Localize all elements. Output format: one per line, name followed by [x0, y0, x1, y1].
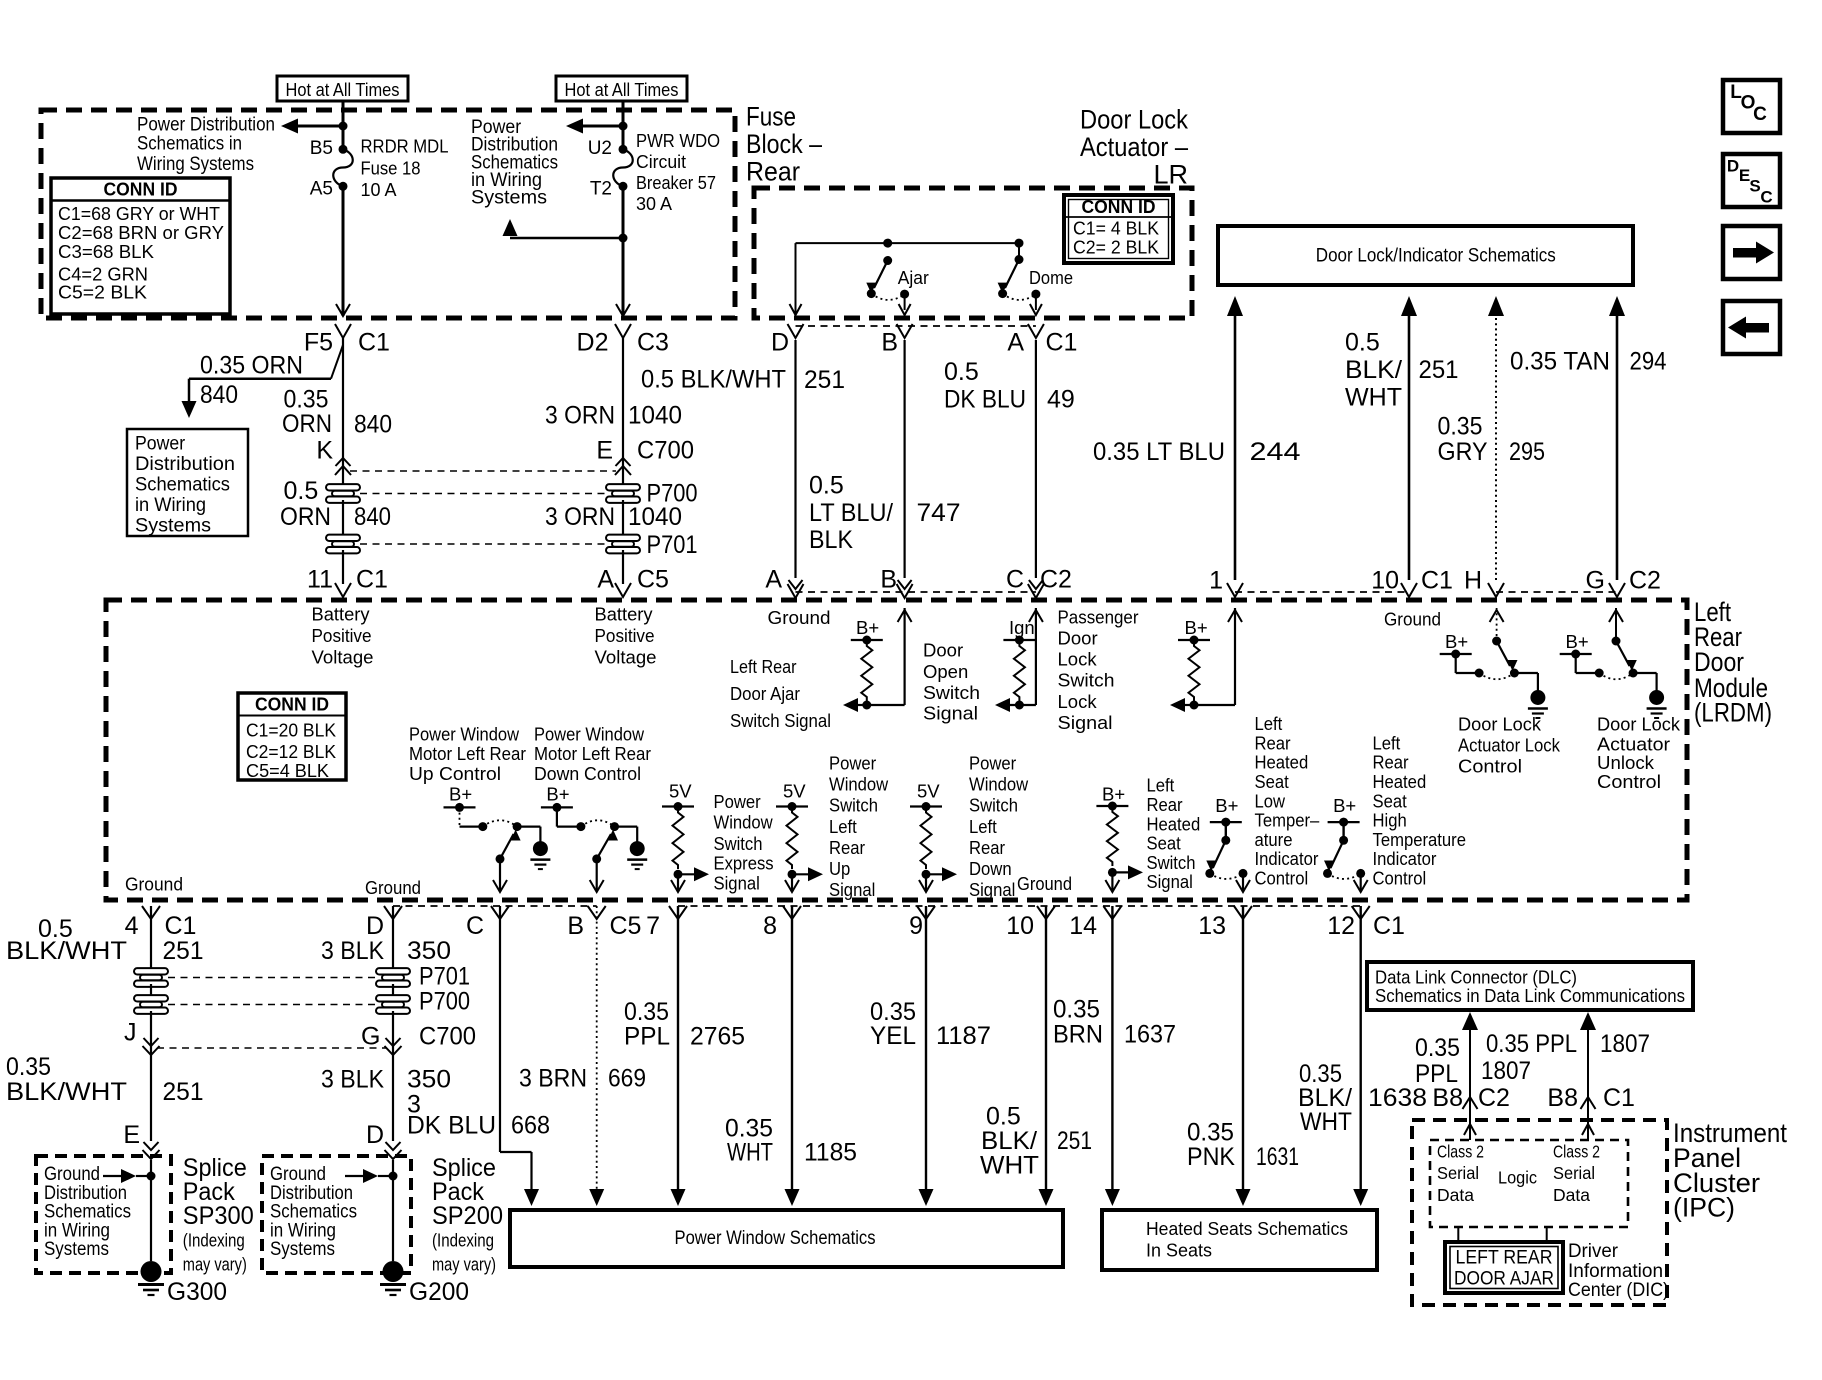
svg-text:1185: 1185 — [804, 1139, 857, 1167]
svg-text:H: H — [1464, 567, 1482, 595]
svg-text:CONN ID: CONN ID — [1082, 197, 1156, 217]
svg-text:C1: C1 — [1421, 567, 1453, 595]
svg-text:WHT: WHT — [1300, 1108, 1352, 1136]
svg-text:Door Lock/Indicator Schematics: Door Lock/Indicator Schematics — [1316, 246, 1556, 267]
svg-text:Ground: Ground — [365, 877, 421, 898]
svg-text:Door Lock: Door Lock — [1080, 105, 1188, 135]
svg-text:5V: 5V — [783, 781, 806, 802]
svg-text:0.35 LT BLU: 0.35 LT BLU — [1093, 438, 1225, 466]
svg-text:10 A: 10 A — [361, 180, 397, 200]
svg-text:(LRDM): (LRDM) — [1694, 698, 1772, 728]
svg-text:B: B — [567, 912, 584, 940]
svg-text:Rear: Rear — [1255, 732, 1291, 753]
svg-text:840: 840 — [354, 503, 391, 531]
svg-text:in Wiring: in Wiring — [135, 495, 206, 516]
svg-text:Heated: Heated — [1373, 771, 1427, 792]
svg-text:1638: 1638 — [1368, 1084, 1427, 1112]
svg-text:S: S — [1749, 177, 1760, 196]
svg-text:Signal: Signal — [829, 879, 875, 900]
svg-text:Rear: Rear — [1147, 794, 1183, 815]
svg-text:Positive: Positive — [595, 625, 655, 646]
svg-text:C: C — [1760, 188, 1772, 207]
svg-text:Up Control: Up Control — [409, 763, 501, 784]
svg-text:DK BLU: DK BLU — [407, 1112, 496, 1140]
svg-text:G200: G200 — [409, 1278, 469, 1306]
svg-text:Data: Data — [1437, 1185, 1474, 1205]
svg-text:Class 2: Class 2 — [1553, 1142, 1600, 1162]
svg-text:Ground: Ground — [125, 874, 183, 895]
svg-text:Distribution: Distribution — [135, 454, 235, 475]
svg-text:B+: B+ — [1102, 784, 1125, 805]
svg-text:Ground: Ground — [1384, 609, 1441, 630]
svg-text:3 BRN: 3 BRN — [519, 1065, 587, 1093]
svg-text:A: A — [1007, 329, 1024, 357]
svg-text:Seat: Seat — [1255, 771, 1289, 792]
svg-text:0.35: 0.35 — [1438, 413, 1483, 441]
svg-text:Lock: Lock — [1058, 649, 1098, 670]
svg-text:0.5: 0.5 — [809, 472, 844, 500]
svg-text:Rear: Rear — [829, 837, 865, 858]
svg-text:C1: C1 — [165, 912, 197, 940]
svg-text:1: 1 — [1209, 567, 1223, 595]
svg-text:Signal: Signal — [969, 879, 1015, 900]
svg-text:C: C — [1753, 104, 1767, 125]
svg-text:C: C — [466, 912, 484, 940]
svg-text:840: 840 — [200, 381, 238, 409]
svg-text:Rear: Rear — [1373, 752, 1409, 773]
svg-text:251: 251 — [804, 366, 845, 394]
svg-text:Ground: Ground — [1017, 873, 1072, 894]
svg-text:4: 4 — [125, 912, 139, 940]
svg-text:0.35: 0.35 — [1053, 996, 1100, 1024]
svg-text:B5: B5 — [310, 138, 333, 159]
svg-text:P701: P701 — [647, 531, 698, 559]
svg-text:G: G — [1586, 567, 1605, 595]
svg-text:1040: 1040 — [628, 503, 682, 531]
svg-text:Door Lock: Door Lock — [1458, 714, 1542, 735]
svg-text:Express: Express — [714, 853, 774, 874]
svg-text:Unlock: Unlock — [1597, 752, 1655, 773]
svg-text:may vary): may vary) — [432, 1254, 496, 1275]
svg-text:Temper–: Temper– — [1255, 810, 1320, 831]
svg-text:B: B — [881, 329, 898, 357]
svg-text:C3=68 BLK: C3=68 BLK — [58, 241, 155, 262]
svg-text:9: 9 — [909, 912, 923, 940]
svg-text:Ground: Ground — [768, 607, 831, 628]
svg-text:5V: 5V — [917, 781, 940, 802]
svg-text:G: G — [361, 1023, 380, 1051]
svg-text:T2: T2 — [590, 179, 612, 200]
svg-text:B+: B+ — [1566, 631, 1589, 652]
svg-text:PNK: PNK — [1187, 1143, 1235, 1171]
svg-text:Actuator Lock: Actuator Lock — [1458, 735, 1561, 756]
svg-text:In Seats: In Seats — [1146, 1240, 1212, 1261]
svg-text:(Indexing: (Indexing — [432, 1230, 494, 1251]
svg-text:Door Ajar: Door Ajar — [730, 683, 800, 704]
svg-text:C1: C1 — [1603, 1084, 1635, 1112]
svg-text:8: 8 — [763, 912, 777, 940]
svg-text:may vary): may vary) — [183, 1254, 247, 1275]
svg-text:Open: Open — [923, 661, 968, 682]
svg-text:840: 840 — [354, 411, 392, 439]
svg-text:Heated: Heated — [1147, 813, 1201, 834]
svg-text:P700: P700 — [419, 988, 470, 1016]
svg-text:Left Rear: Left Rear — [730, 656, 797, 677]
svg-text:295: 295 — [1509, 438, 1545, 466]
svg-text:PPL: PPL — [624, 1022, 670, 1050]
svg-text:Battery: Battery — [312, 604, 371, 625]
svg-text:Battery: Battery — [595, 604, 654, 625]
svg-text:Rear: Rear — [969, 837, 1005, 858]
svg-text:Motor Left Rear: Motor Left Rear — [534, 743, 651, 764]
svg-text:A: A — [597, 566, 614, 594]
svg-text:Left: Left — [1255, 713, 1283, 734]
svg-text:0.35 PPL: 0.35 PPL — [1486, 1030, 1577, 1058]
svg-text:0.35: 0.35 — [1415, 1034, 1460, 1062]
svg-text:Power: Power — [969, 752, 1016, 773]
svg-text:Switch Signal: Switch Signal — [730, 710, 831, 731]
svg-text:D: D — [366, 912, 384, 940]
svg-text:(IPC): (IPC) — [1673, 1193, 1735, 1223]
svg-text:CONN ID: CONN ID — [104, 180, 178, 200]
svg-text:Lock: Lock — [1058, 691, 1098, 712]
svg-text:Information: Information — [1568, 1261, 1663, 1282]
svg-text:C1=68 GRY or WHT: C1=68 GRY or WHT — [58, 203, 220, 224]
svg-text:Circuit: Circuit — [636, 152, 686, 172]
svg-text:Hot at All Times: Hot at All Times — [565, 79, 679, 100]
svg-text:Schematics in: Schematics in — [137, 134, 242, 155]
svg-text:350: 350 — [407, 937, 451, 965]
svg-text:Heated Seats Schematics: Heated Seats Schematics — [1146, 1218, 1348, 1239]
svg-text:WHT: WHT — [727, 1139, 773, 1167]
svg-text:SP200: SP200 — [432, 1202, 503, 1230]
svg-text:J: J — [124, 1019, 137, 1047]
svg-text:Up: Up — [829, 858, 850, 879]
svg-text:Switch: Switch — [714, 833, 763, 854]
svg-text:F5: F5 — [304, 329, 333, 357]
svg-text:13: 13 — [1198, 912, 1226, 940]
svg-text:Power Window Schematics: Power Window Schematics — [675, 1228, 876, 1249]
svg-text:G300: G300 — [167, 1278, 227, 1306]
svg-text:Systems: Systems — [135, 516, 211, 537]
svg-text:251: 251 — [1057, 1127, 1092, 1155]
svg-text:Power: Power — [135, 434, 186, 455]
svg-text:Heated: Heated — [1255, 752, 1309, 773]
svg-text:Indicator: Indicator — [1373, 848, 1437, 869]
svg-text:Passenger: Passenger — [1058, 607, 1139, 628]
svg-text:K: K — [316, 437, 333, 465]
svg-text:Schematics: Schematics — [135, 475, 230, 496]
svg-text:0.5 BLK/WHT: 0.5 BLK/WHT — [641, 366, 786, 394]
svg-text:Indicator: Indicator — [1255, 848, 1319, 869]
svg-text:1807: 1807 — [1481, 1057, 1531, 1085]
svg-text:11: 11 — [307, 566, 333, 594]
svg-text:Actuator –: Actuator – — [1080, 132, 1188, 162]
svg-text:DK BLU: DK BLU — [944, 385, 1026, 413]
svg-text:Logic: Logic — [1498, 1168, 1537, 1188]
svg-text:B: B — [880, 566, 897, 594]
svg-text:Voltage: Voltage — [595, 647, 657, 668]
svg-text:U2: U2 — [588, 138, 612, 159]
svg-text:Window: Window — [829, 774, 889, 795]
svg-text:3 ORN: 3 ORN — [545, 503, 615, 531]
svg-text:Hot at All Times: Hot at All Times — [286, 79, 400, 100]
svg-text:10: 10 — [1006, 912, 1034, 940]
svg-text:1040: 1040 — [628, 402, 682, 430]
svg-text:SP300: SP300 — [183, 1202, 254, 1230]
svg-text:High: High — [1373, 810, 1407, 831]
svg-text:Switch: Switch — [923, 682, 980, 703]
svg-text:Control: Control — [1597, 771, 1661, 792]
svg-text:294: 294 — [1630, 348, 1667, 376]
svg-text:Breaker 57: Breaker 57 — [636, 173, 716, 193]
svg-text:Switch: Switch — [829, 795, 878, 816]
svg-text:(Indexing: (Indexing — [183, 1230, 245, 1251]
svg-text:Door Lock: Door Lock — [1597, 714, 1681, 735]
svg-text:Positive: Positive — [312, 625, 372, 646]
svg-text:Signal: Signal — [1058, 712, 1113, 733]
svg-text:251: 251 — [163, 937, 204, 965]
svg-text:C5: C5 — [637, 566, 669, 594]
svg-text:Data: Data — [1553, 1185, 1590, 1205]
svg-text:3 BLK: 3 BLK — [321, 937, 384, 965]
svg-text:D: D — [1727, 157, 1739, 176]
svg-text:Systems: Systems — [44, 1239, 109, 1260]
svg-text:Control: Control — [1373, 868, 1427, 889]
svg-text:Down Control: Down Control — [534, 763, 641, 784]
svg-text:1631: 1631 — [1256, 1143, 1299, 1171]
svg-text:3 BLK: 3 BLK — [321, 1066, 384, 1094]
svg-text:CONN ID: CONN ID — [255, 695, 329, 715]
svg-text:251: 251 — [1419, 356, 1459, 384]
svg-text:Signal: Signal — [714, 872, 760, 893]
svg-text:A5: A5 — [310, 179, 333, 200]
svg-text:Fuse 18: Fuse 18 — [361, 159, 421, 179]
svg-text:B+: B+ — [1215, 795, 1238, 816]
svg-text:Schematics in Data Link Commun: Schematics in Data Link Communications — [1375, 985, 1685, 1006]
svg-text:C: C — [1006, 566, 1024, 594]
svg-text:BRN: BRN — [1053, 1021, 1103, 1049]
svg-text:B+: B+ — [856, 617, 879, 638]
svg-text:C1=20 BLK: C1=20 BLK — [246, 720, 337, 741]
svg-text:Seat: Seat — [1147, 833, 1181, 854]
svg-text:B+: B+ — [1333, 795, 1356, 816]
svg-text:Power: Power — [714, 791, 761, 812]
svg-text:Left: Left — [969, 816, 997, 837]
svg-text:Center (DIC): Center (DIC) — [1568, 1280, 1669, 1301]
svg-text:P701: P701 — [419, 963, 470, 991]
svg-text:B+: B+ — [546, 784, 569, 805]
svg-text:668: 668 — [511, 1112, 550, 1140]
svg-text:Systems: Systems — [270, 1239, 335, 1260]
svg-text:C2=12 BLK: C2=12 BLK — [246, 741, 337, 762]
svg-text:ature: ature — [1255, 829, 1293, 850]
svg-text:BLK/WHT: BLK/WHT — [6, 1078, 127, 1106]
svg-text:E: E — [123, 1121, 140, 1149]
svg-text:Low: Low — [1255, 790, 1286, 811]
svg-text:YEL: YEL — [870, 1022, 916, 1050]
svg-text:Voltage: Voltage — [312, 647, 374, 668]
svg-text:Door: Door — [1058, 628, 1098, 649]
svg-text:0.35 ORN: 0.35 ORN — [200, 352, 303, 380]
svg-text:251: 251 — [163, 1078, 204, 1106]
svg-text:D: D — [366, 1121, 384, 1149]
svg-text:Signal: Signal — [923, 703, 978, 724]
svg-text:Systems: Systems — [471, 188, 547, 209]
svg-text:C700: C700 — [637, 437, 694, 465]
svg-text:Power Distribution: Power Distribution — [137, 115, 275, 136]
svg-text:C2= 2 BLK: C2= 2 BLK — [1073, 237, 1160, 258]
svg-text:LT BLU/: LT BLU/ — [809, 499, 893, 527]
svg-text:Left: Left — [1373, 732, 1401, 753]
svg-text:Door: Door — [923, 640, 963, 661]
svg-text:C1= 4 BLK: C1= 4 BLK — [1073, 218, 1160, 239]
svg-text:Dome: Dome — [1029, 267, 1073, 288]
svg-text:Class 2: Class 2 — [1437, 1142, 1484, 1162]
svg-text:BLK/: BLK/ — [1345, 356, 1402, 384]
svg-text:B8: B8 — [1432, 1084, 1463, 1112]
svg-text:C700: C700 — [419, 1023, 476, 1051]
svg-text:C1: C1 — [1046, 329, 1078, 357]
svg-text:244: 244 — [1250, 438, 1301, 466]
svg-text:49: 49 — [1047, 385, 1075, 413]
svg-text:Driver: Driver — [1568, 1241, 1619, 1262]
svg-text:Left: Left — [1147, 775, 1175, 796]
svg-text:0.35: 0.35 — [6, 1053, 51, 1081]
svg-text:5V: 5V — [669, 781, 692, 802]
svg-text:C5: C5 — [610, 912, 642, 940]
svg-text:Switch: Switch — [1058, 670, 1115, 691]
svg-text:C1: C1 — [1373, 912, 1405, 940]
svg-text:10: 10 — [1371, 567, 1399, 595]
svg-text:Control: Control — [1255, 868, 1309, 889]
svg-text:30 A: 30 A — [636, 194, 672, 214]
svg-text:0.35 TAN: 0.35 TAN — [1510, 348, 1610, 376]
svg-text:B+: B+ — [1185, 617, 1208, 638]
svg-text:Serial: Serial — [1553, 1163, 1595, 1183]
svg-text:Ajar: Ajar — [898, 267, 929, 288]
svg-text:1807: 1807 — [1600, 1030, 1650, 1058]
svg-text:C3: C3 — [637, 329, 669, 357]
svg-text:2765: 2765 — [690, 1022, 745, 1050]
svg-text:Switch: Switch — [1147, 852, 1196, 873]
svg-text:Switch: Switch — [969, 795, 1018, 816]
svg-text:Wiring Systems: Wiring Systems — [137, 154, 254, 175]
svg-text:C5=2 BLK: C5=2 BLK — [58, 282, 148, 303]
svg-text:WHT: WHT — [980, 1152, 1039, 1180]
svg-text:Signal: Signal — [1147, 871, 1193, 892]
svg-text:Fuse: Fuse — [746, 102, 796, 132]
svg-text:669: 669 — [608, 1065, 646, 1093]
svg-text:Power Window: Power Window — [534, 724, 645, 745]
svg-text:BLK: BLK — [809, 526, 853, 554]
svg-text:Power Window: Power Window — [409, 724, 520, 745]
svg-text:E: E — [596, 437, 613, 465]
svg-text:Down: Down — [969, 858, 1012, 879]
svg-text:0.5: 0.5 — [1345, 329, 1380, 357]
svg-text:0.5: 0.5 — [944, 358, 979, 386]
svg-text:C2: C2 — [1478, 1084, 1510, 1112]
svg-text:B8: B8 — [1547, 1084, 1578, 1112]
svg-text:Left: Left — [829, 816, 857, 837]
svg-text:Window: Window — [714, 812, 774, 833]
svg-text:Block –: Block – — [746, 129, 822, 159]
svg-text:1187: 1187 — [936, 1022, 991, 1050]
svg-text:350: 350 — [407, 1066, 451, 1094]
svg-text:DOOR AJAR: DOOR AJAR — [1454, 1269, 1554, 1290]
svg-text:747: 747 — [917, 499, 961, 527]
svg-text:B+: B+ — [1445, 631, 1468, 652]
svg-text:D: D — [771, 329, 789, 357]
svg-text:14: 14 — [1069, 912, 1097, 940]
svg-text:WHT: WHT — [1345, 383, 1402, 411]
svg-text:0.5: 0.5 — [284, 477, 319, 505]
svg-text:LR: LR — [1153, 160, 1188, 190]
svg-text:Control: Control — [1458, 756, 1522, 777]
svg-text:Rear: Rear — [746, 156, 800, 186]
svg-text:A: A — [765, 566, 782, 594]
svg-text:C2=68 BRN or GRY: C2=68 BRN or GRY — [58, 222, 224, 243]
svg-text:Motor Left Rear: Motor Left Rear — [409, 743, 526, 764]
svg-text:PWR WDO: PWR WDO — [636, 131, 720, 151]
svg-text:12: 12 — [1327, 912, 1355, 940]
svg-text:GRY: GRY — [1438, 438, 1488, 466]
svg-text:Power: Power — [829, 752, 876, 773]
svg-text:Temperature: Temperature — [1373, 829, 1467, 850]
svg-text:C1: C1 — [356, 566, 388, 594]
svg-text:C2: C2 — [1629, 567, 1661, 595]
svg-text:Seat: Seat — [1373, 790, 1407, 811]
svg-text:C2: C2 — [1040, 566, 1072, 594]
svg-text:C5=4 BLK: C5=4 BLK — [246, 760, 330, 781]
svg-text:D2: D2 — [577, 329, 609, 357]
svg-text:ORN: ORN — [282, 410, 332, 438]
svg-text:BLK/WHT: BLK/WHT — [6, 937, 127, 965]
svg-text:B+: B+ — [449, 784, 472, 805]
svg-text:C1: C1 — [358, 329, 390, 357]
svg-text:Window: Window — [969, 774, 1029, 795]
svg-text:LEFT REAR: LEFT REAR — [1456, 1248, 1553, 1269]
svg-text:7: 7 — [646, 912, 660, 940]
svg-text:ORN: ORN — [280, 503, 331, 531]
svg-text:1637: 1637 — [1124, 1021, 1176, 1049]
svg-text:3 ORN: 3 ORN — [545, 402, 615, 430]
svg-text:RRDR MDL: RRDR MDL — [361, 136, 449, 156]
svg-text:Serial: Serial — [1437, 1163, 1479, 1183]
